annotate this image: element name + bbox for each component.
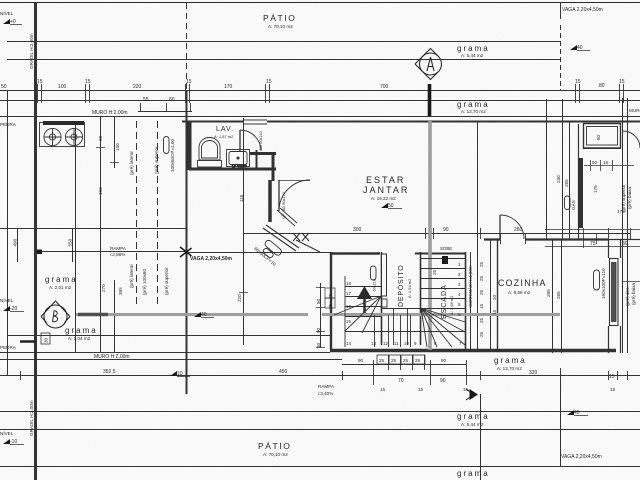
wall stair block top bbox=[330, 252, 380, 254]
wall chamfer double diagonal bbox=[263, 225, 320, 252]
wire right muro vertical pair bbox=[622, 98, 624, 353]
dimension ticks estar row bbox=[244, 228, 631, 244]
label rampa bottom bbox=[318, 384, 335, 396]
label bd door entry vertical bbox=[282, 192, 286, 211]
symbol level flag +10 bottom mid bbox=[170, 371, 190, 377]
wire gray section dark segment bbox=[78, 313, 108, 316]
wire left thick vertical gradil bbox=[34, 2, 37, 480]
wire main top dimension line bbox=[0, 90, 640, 92]
wire top border line bbox=[0, 2, 640, 4]
wall lav right upper L horizontal bbox=[250, 152, 276, 155]
wall lav left thick bbox=[187, 122, 192, 170]
label deposito vertical bbox=[396, 265, 412, 307]
dimension labels bottom main bbox=[103, 369, 616, 392]
wire right corridor vertical a bbox=[546, 99, 548, 239]
wire thick black vertical top at x429 bbox=[428, 84, 432, 116]
dimension mid column ticks bbox=[96, 117, 325, 348]
wall lav right upper L vertical bbox=[272, 153, 275, 181]
stairs right flight treads bbox=[421, 259, 465, 309]
wall estar right thick bar bbox=[579, 158, 583, 228]
wire left rampa line bbox=[35, 251, 186, 253]
wire corridor line y246 bbox=[545, 246, 640, 248]
wire dashed pre line 2 bbox=[157, 121, 159, 308]
wall stair top right segment bbox=[415, 253, 466, 255]
wire gas vertical bbox=[569, 122, 571, 239]
label corrimao vertical bbox=[468, 265, 473, 307]
label gradil bottom vertical bbox=[29, 400, 34, 436]
wire entry step diagonal bbox=[277, 208, 297, 226]
fixture chamfer vent obround diagonal bbox=[260, 239, 283, 262]
wire left dim vertical x114 bbox=[114, 116, 116, 352]
dimension box 30 left bbox=[41, 333, 50, 344]
fixture double laundry sink box bbox=[40, 123, 85, 147]
wall corridor top right bbox=[608, 239, 640, 241]
stair step numbers left column bbox=[346, 281, 351, 324]
wire patio lower line 1 bbox=[7, 41, 560, 43]
label grama bottom 544 bbox=[457, 412, 490, 427]
wire kitchen dim vertical a bbox=[552, 239, 554, 353]
wire top right vertical 560 dashed bbox=[560, 25, 562, 90]
wire left muro bottom line2 bbox=[0, 359, 342, 361]
symbol level flag -10 bottom left bbox=[0, 430, 24, 445]
stairs right flight winders bottom bbox=[421, 308, 465, 347]
stairs bottom row dividers bbox=[345, 315, 465, 347]
rotated labels right side bbox=[432, 134, 636, 306]
label estar jantar bbox=[363, 175, 409, 195]
dimension right mid ticks y165 bbox=[584, 160, 634, 171]
label escada vertical bbox=[441, 284, 454, 319]
wire muro line top bbox=[0, 116, 640, 118]
symbol rampa arrow right bbox=[470, 389, 479, 400]
wall stair block left bbox=[330, 252, 332, 350]
wire stair bottom dim baseline bbox=[342, 364, 466, 366]
wire corridor line x470 bbox=[470, 252, 472, 350]
label grama left 1 bbox=[45, 275, 78, 290]
dimension corridor bottom ticks bbox=[584, 228, 597, 248]
stairs left flight winders bbox=[334, 276, 381, 333]
symbol rampa line black cap bbox=[34, 249, 42, 254]
fixture gas obround bbox=[565, 196, 571, 210]
wire bottom right vertical 560 bbox=[560, 371, 562, 467]
label grama bottom edge bbox=[457, 469, 490, 480]
label grama left 2 bbox=[65, 326, 98, 341]
rotated dim labels left column bbox=[13, 135, 322, 348]
fixture toilet tank bbox=[198, 161, 222, 168]
stairs left small treads bbox=[345, 307, 381, 317]
wall kitchen right pair bbox=[609, 239, 621, 353]
symbol level flag -20 left bbox=[0, 297, 24, 312]
fixture sink circle 2 bbox=[65, 128, 82, 145]
wire vaga boundary line bbox=[186, 252, 330, 254]
wire left dim vertical x75 bbox=[75, 121, 77, 352]
fixture sink hatch top bbox=[43, 121, 84, 125]
door entry arc bbox=[279, 180, 310, 211]
wire bottom line 1 bbox=[0, 411, 640, 413]
wire bottom line 3 bbox=[0, 466, 640, 468]
stair left dim boxes 25 bbox=[325, 288, 335, 308]
label gradil top vertical bbox=[29, 33, 34, 69]
dimension ticks bottom main bbox=[21, 355, 628, 385]
wire bottom main dim line bbox=[0, 375, 640, 377]
fixture sink circle 1 bbox=[44, 128, 61, 145]
fixture laundry obround left bbox=[164, 137, 170, 154]
wire bottom line 2 bbox=[0, 429, 640, 431]
wire left boundary vertical bbox=[7, 90, 9, 375]
fixture lav basin counter bbox=[227, 150, 250, 167]
wire corridor line y230 bbox=[545, 229, 640, 231]
label grama top right bbox=[457, 44, 490, 58]
window lav top bbox=[243, 120, 267, 124]
wire estar right dim chain bbox=[477, 121, 479, 350]
wire right corridor vertical b bbox=[562, 99, 564, 239]
fixture cabinet 60 top right bbox=[584, 124, 621, 149]
wire corridor line x490 bbox=[490, 240, 492, 350]
window kitchen right double rect bbox=[610, 259, 619, 326]
door lav arc bbox=[240, 130, 261, 151]
paper texture overlay bbox=[0, 0, 1, 1]
wall building bottom thick bbox=[330, 349, 616, 353]
wall deposito left pilaster bbox=[382, 254, 387, 296]
wall stair right bbox=[465, 252, 467, 350]
symbol level flag +40 top right bbox=[570, 45, 590, 51]
wire patio lower line 2 bbox=[7, 59, 560, 61]
stair step numbers right column bbox=[458, 262, 461, 317]
wall top right cabinet zone bottom bbox=[583, 148, 621, 150]
stair step numbers bottom row bbox=[346, 341, 462, 346]
wall building top bbox=[182, 121, 640, 123]
wire grama strip top line bbox=[0, 100, 640, 102]
symbol level flag +40 bottom right bbox=[567, 410, 588, 416]
label grama bottom mid bbox=[494, 356, 527, 371]
dimension ticks top line bbox=[38, 84, 624, 112]
symbol level flag +50 estar bbox=[381, 203, 402, 209]
wire right short segment bbox=[622, 281, 640, 283]
marker section A bbox=[415, 49, 442, 80]
wall entry left vertical bbox=[268, 180, 272, 222]
wire left dim vertical x97 bbox=[100, 116, 102, 352]
label door lav vertical bbox=[259, 131, 263, 150]
wire thick gray vertical column line bbox=[428, 121, 432, 350]
label rampa mid left bbox=[110, 246, 127, 257]
dimension labels estar row bbox=[353, 227, 628, 247]
symbol stair post black bbox=[442, 256, 448, 264]
wire dim vertical 490 bbox=[17, 228, 19, 262]
wire dashed pre line 1 bbox=[136, 121, 138, 308]
wire kitchen dim vertical b bbox=[561, 239, 563, 353]
fixture toilet bowl bbox=[199, 138, 220, 161]
wire thick gray section line horizontal bbox=[76, 313, 560, 316]
wire left muro bottom line bbox=[0, 352, 330, 354]
wall short segment left bottom bbox=[20, 340, 36, 343]
marker section B bbox=[41, 301, 70, 328]
wire estar dimension row bbox=[244, 233, 630, 235]
wall kitchen left bbox=[497, 240, 499, 350]
wire vaga left vertical dashed top bbox=[186, 3, 188, 89]
fixture kitchen window obround bbox=[594, 270, 600, 290]
door top right corner arc bbox=[623, 131, 640, 148]
symbol level flag +0 top left bbox=[0, 10, 22, 25]
rotated pre labels mid left bbox=[129, 138, 175, 295]
label grama strip top bbox=[457, 100, 490, 114]
dimension labels top bbox=[1, 79, 625, 103]
wall deposito right / stair left bbox=[420, 252, 422, 345]
wire center dim vertical x243 bbox=[243, 118, 245, 345]
stairs up arrow bbox=[363, 297, 366, 313]
wire stair left dim vertical bbox=[320, 283, 322, 348]
handrail door obround bbox=[371, 266, 377, 280]
wall lav bottom bbox=[189, 168, 276, 171]
corridor dim 25 labels bbox=[479, 261, 497, 337]
door kitchen arc bbox=[500, 215, 524, 239]
dimension stair bottom boxes bbox=[377, 355, 425, 364]
wire top right vertical 560 solid bbox=[560, 2, 562, 19]
label 70 diagonal entry bbox=[279, 213, 286, 220]
wire left lower line bbox=[7, 335, 330, 337]
symbol vaga arrow left bbox=[180, 247, 192, 257]
symbol level flag +40 vaga left bbox=[194, 312, 214, 318]
wall lav right bbox=[256, 150, 258, 168]
wire dim vertical 550 bbox=[72, 228, 74, 262]
wire left mid line A bbox=[0, 228, 186, 230]
wire bottom right vertical 480 bbox=[480, 394, 482, 480]
stairs deposito inner lines bbox=[382, 308, 420, 345]
wall deposito left bbox=[381, 252, 383, 345]
wall estar right bbox=[578, 124, 580, 239]
wall kitchen top segments bbox=[484, 238, 608, 240]
label 60x30 diagonal chamfer bbox=[253, 246, 277, 267]
wire vaga left vertical bbox=[186, 90, 188, 394]
symbol tick cross top mid bbox=[293, 233, 309, 241]
label stair door size bbox=[373, 279, 377, 291]
